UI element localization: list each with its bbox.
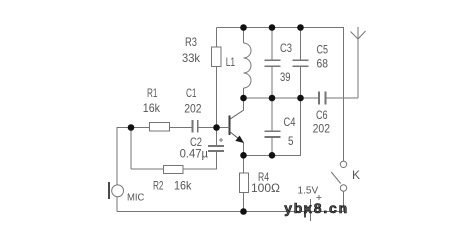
svg-text:39: 39 [280, 70, 291, 84]
antenna [351, 27, 366, 98]
resistor R4 [240, 155, 249, 211]
node collector row C5 [297, 95, 304, 102]
node emitter [240, 152, 247, 159]
svg-text:0.47µ: 0.47µ [180, 147, 208, 161]
svg-text:C1: C1 [186, 86, 197, 100]
resistor R1 [150, 123, 170, 132]
capacitor C1 [193, 120, 198, 133]
wire top rail [217, 27, 345, 29]
svg-text:R1: R1 [147, 86, 158, 100]
node top rail L1 [240, 24, 247, 31]
svg-text:ybx8.cn: ybx8.cn [284, 200, 347, 216]
svg-text:5: 5 [288, 134, 294, 148]
svg-text:C6: C6 [316, 108, 328, 122]
node top rail C5 [297, 24, 304, 31]
node top rail C3 [269, 24, 276, 31]
svg-text:C4: C4 [284, 115, 296, 129]
node base [213, 124, 220, 131]
inductor L1 [244, 28, 252, 99]
svg-text:R2: R2 [153, 178, 164, 192]
capacitor C4 [264, 98, 280, 155]
resistor R3 [212, 28, 222, 128]
wire base lead [217, 127, 230, 129]
wire MIC to node A [117, 128, 150, 185]
svg-text:16k: 16k [174, 178, 192, 192]
wire bottom rail right [311, 191, 344, 211]
svg-text:MIC: MIC [127, 193, 144, 204]
svg-text:202: 202 [313, 122, 331, 136]
svg-text:K: K [352, 168, 360, 182]
node collector row L1 [240, 95, 247, 102]
svg-text:C5: C5 [317, 42, 329, 56]
wire C5 column down to emitter row [244, 98, 301, 155]
capacitor C3 [265, 28, 281, 99]
svg-text:16k: 16k [143, 101, 161, 115]
svg-text:33k: 33k [182, 51, 201, 65]
wire R1 to C1 [170, 127, 193, 129]
transistor Q1 [230, 98, 245, 155]
capacitor C5 [293, 28, 309, 99]
microphone MIC [109, 182, 124, 212]
node bottom rail R4 [240, 208, 247, 215]
svg-text:C3: C3 [280, 41, 292, 55]
wire R2 to C2 [183, 151, 217, 169]
node collector row C3 [269, 95, 276, 102]
wire C1 to base node [198, 127, 217, 129]
capacitor C6 [319, 92, 326, 105]
svg-text:L1: L1 [226, 55, 236, 69]
svg-text:100Ω: 100Ω [251, 181, 280, 195]
wire node A to R2 [131, 168, 164, 170]
wire collector row (left of C6) [244, 97, 320, 99]
capacitor C2 [208, 128, 224, 152]
svg-text:68: 68 [317, 56, 329, 70]
wire node A down [130, 128, 132, 170]
svg-text:R3: R3 [185, 35, 197, 49]
wire bottom rail left [117, 211, 305, 213]
node A mic junction [128, 124, 135, 131]
wire C6 to antenna [326, 97, 359, 99]
node emitter row C4 [269, 152, 276, 159]
battery 1.5V [305, 195, 322, 221]
switch K [331, 28, 346, 192]
svg-text:1.5V: 1.5V [298, 185, 319, 197]
svg-text:202: 202 [184, 102, 202, 116]
resistor R2 [164, 166, 184, 174]
